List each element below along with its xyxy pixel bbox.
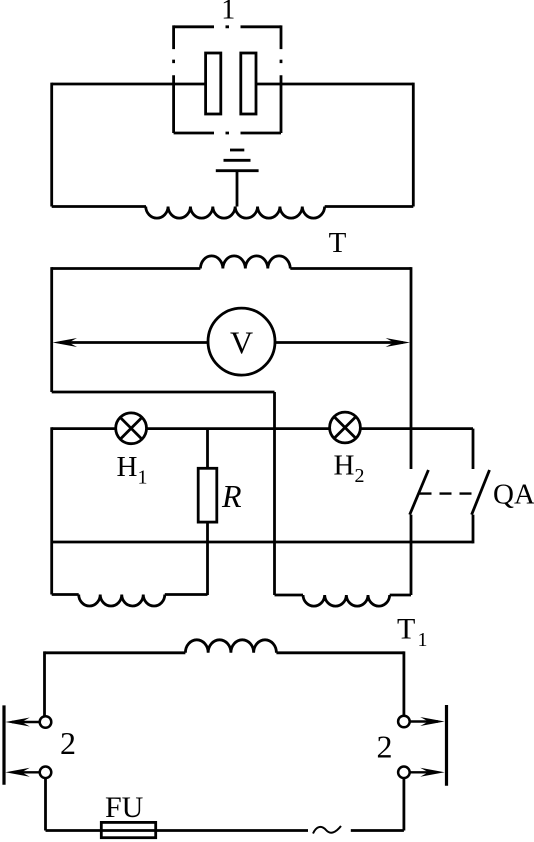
inductor winding L-top (T secondary, 8 humps, center tap) — [146, 207, 325, 219]
wire bottom circuit top-left — [45, 651, 186, 654]
arrow left (voltage span) — [53, 338, 208, 347]
label T1 — [397, 613, 428, 652]
wire bottom rail right — [351, 829, 404, 832]
wire right riser — [402, 778, 405, 830]
wire resistor top lead — [206, 429, 209, 469]
svg-text:QA: QA — [493, 479, 534, 511]
lamp H1 — [116, 413, 147, 444]
ground symbol (inverted earth) — [216, 150, 259, 171]
fuse FU — [101, 822, 155, 837]
wire right vertical (top loop) — [412, 83, 415, 207]
arrow connector L2 — [5, 768, 39, 777]
svg-text:2: 2 — [377, 729, 393, 765]
connector terminal circle L1 — [40, 716, 52, 728]
inductor winding left loop (4 humps below) — [79, 595, 165, 607]
connector terminal circle R2 — [398, 767, 410, 779]
wire switch pole2 drop — [472, 429, 475, 469]
svg-text:1: 1 — [138, 467, 148, 489]
wire step vertical — [273, 392, 276, 595]
shield box 1 (dash-dot enclosure) — [174, 25, 281, 133]
wire below blade2 — [472, 515, 475, 544]
wire lamp row segment 3 — [360, 427, 473, 430]
wire top-left horizontal — [52, 83, 206, 86]
wire left loop vertical — [50, 427, 53, 594]
wire resistor bottom lead — [206, 522, 209, 595]
voltmeter V — [208, 308, 275, 375]
svg-text:H: H — [117, 451, 138, 483]
svg-text:H: H — [334, 450, 355, 482]
resistor R — [198, 468, 217, 522]
wire center-tap stem — [236, 171, 239, 207]
wire middle row right — [290, 267, 411, 270]
wire bottom rail left — [46, 829, 309, 832]
arrow right (voltage span) — [275, 338, 410, 347]
wire top-right horizontal — [256, 83, 414, 86]
inductor winding T1 primary (4 humps above) — [185, 640, 276, 653]
connector bar left — [2, 705, 5, 784]
electrode plate left — [206, 53, 221, 114]
switch QA dashed link — [420, 492, 481, 494]
wire left loop bottom-right — [165, 593, 208, 596]
svg-text:2: 2 — [60, 725, 76, 761]
wire middle row left — [52, 267, 201, 270]
arrow connector L1 — [5, 718, 39, 727]
svg-text:1: 1 — [418, 629, 428, 651]
wire bottom bus — [52, 541, 473, 544]
wire right vertical (V row to switch) — [410, 267, 413, 469]
AC source tilde — [313, 826, 341, 834]
wire above connector R — [402, 651, 405, 715]
wire right loop bottom-left — [275, 594, 304, 597]
switch QA blade 1 — [410, 470, 429, 515]
wire right loop bottom-right — [390, 594, 411, 597]
svg-text:2: 2 — [355, 465, 365, 487]
wire left loop bottom-left — [52, 593, 79, 596]
wire bottom-left horizontal (top loop) — [52, 205, 146, 208]
svg-text:FU: FU — [105, 791, 144, 824]
wire below blade1 — [410, 515, 413, 595]
connector terminal circle R1 — [398, 716, 410, 728]
wire left vertical (top loop) — [50, 83, 53, 207]
wire left drop to connector — [43, 651, 46, 716]
electrode plate right — [241, 53, 256, 114]
wire bottom of V row — [52, 391, 275, 394]
svg-text:R: R — [221, 478, 242, 514]
label H1 — [117, 451, 148, 489]
connector terminal circle L2 — [40, 767, 52, 779]
inductor winding T primary (4 humps above) — [200, 256, 290, 269]
label H2 — [334, 450, 365, 488]
wire below connector L — [44, 778, 47, 830]
connector bar right — [445, 705, 448, 786]
wire lamp row segment 2 — [146, 427, 329, 430]
switch QA blade 2 — [472, 470, 490, 515]
inductor winding right loop (4 humps below) — [303, 595, 390, 606]
wire bottom-right horizontal (top loop) — [325, 205, 414, 208]
svg-text:T: T — [329, 227, 347, 259]
wire lamp row segment 1 — [52, 427, 116, 430]
arrow connector R2 — [410, 768, 445, 777]
svg-text:1: 1 — [221, 0, 235, 26]
arrow connector R1 — [410, 717, 445, 726]
svg-text:V: V — [230, 325, 253, 361]
lamp H2 — [330, 412, 361, 443]
wire bottom circuit top-right — [276, 651, 404, 654]
wire left vertical (V row) — [50, 267, 53, 392]
svg-text:T: T — [397, 613, 415, 646]
